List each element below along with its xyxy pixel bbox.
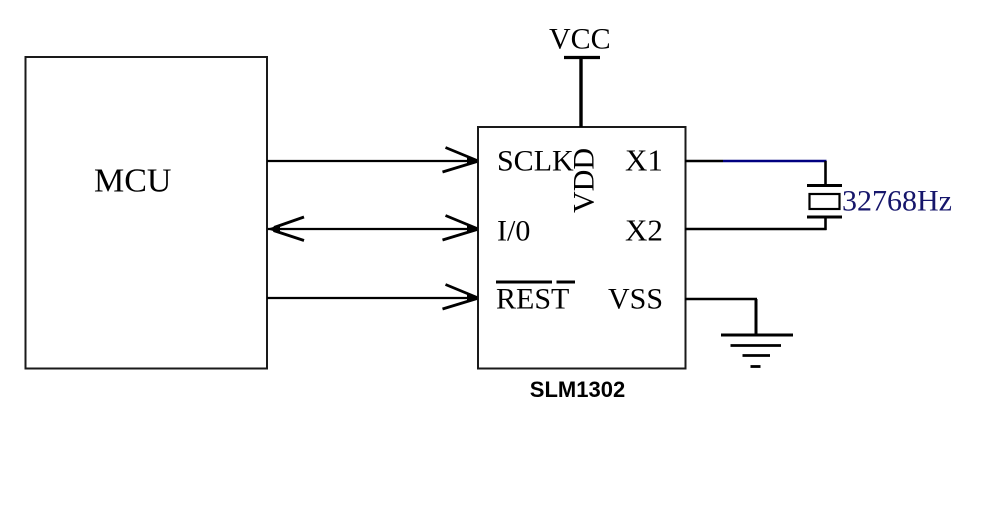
svg-text:MCU: MCU (94, 163, 171, 200)
wire arrow SCLK (MCU to U1) (267, 148, 479, 173)
crystal Y1 32768Hz (807, 186, 842, 218)
value label 32768Hz (842, 185, 952, 218)
wire X1 to crystal (black segment) (685, 160, 723, 162)
wire X1 to crystal (navy segment) (723, 160, 827, 162)
wire arrow REST (MCU to U1) (267, 285, 479, 310)
pin label X2 (625, 213, 663, 248)
svg-text:I/0: I/0 (497, 215, 530, 248)
svg-text:SCLK: SCLK (497, 145, 574, 178)
power VCC symbol (564, 58, 600, 128)
ground (721, 335, 793, 367)
svg-text:X1: X1 (625, 143, 663, 178)
wire crystal top drop (824, 161, 827, 186)
svg-text:X2: X2 (625, 213, 663, 248)
pin label I/0 (497, 215, 530, 248)
wire crystal bottom drop (824, 217, 827, 230)
svg-text:VCC: VCC (549, 23, 611, 56)
IC U1 body SLM1302 (478, 127, 686, 369)
power VCC label (549, 23, 611, 56)
svg-text:32768Hz: 32768Hz (842, 185, 952, 218)
wire VSS to ground (685, 299, 757, 335)
wire X2 to crystal (685, 228, 827, 230)
svg-text:VSS: VSS (608, 283, 663, 316)
pin label SCLK (497, 145, 574, 178)
pin label VDD (rotated) (568, 148, 601, 213)
svg-text:SLM1302: SLM1302 (530, 377, 625, 402)
pin label VSS (608, 283, 663, 316)
wire arrow I/0 (bidirectional) (267, 216, 479, 241)
svg-text:REST: REST (496, 283, 569, 316)
part label SLM1302 (530, 377, 625, 402)
pin label X1 (625, 143, 663, 178)
pin label REST with overline (496, 282, 575, 316)
svg-text:VDD: VDD (568, 148, 601, 213)
block MCU (26, 57, 268, 369)
